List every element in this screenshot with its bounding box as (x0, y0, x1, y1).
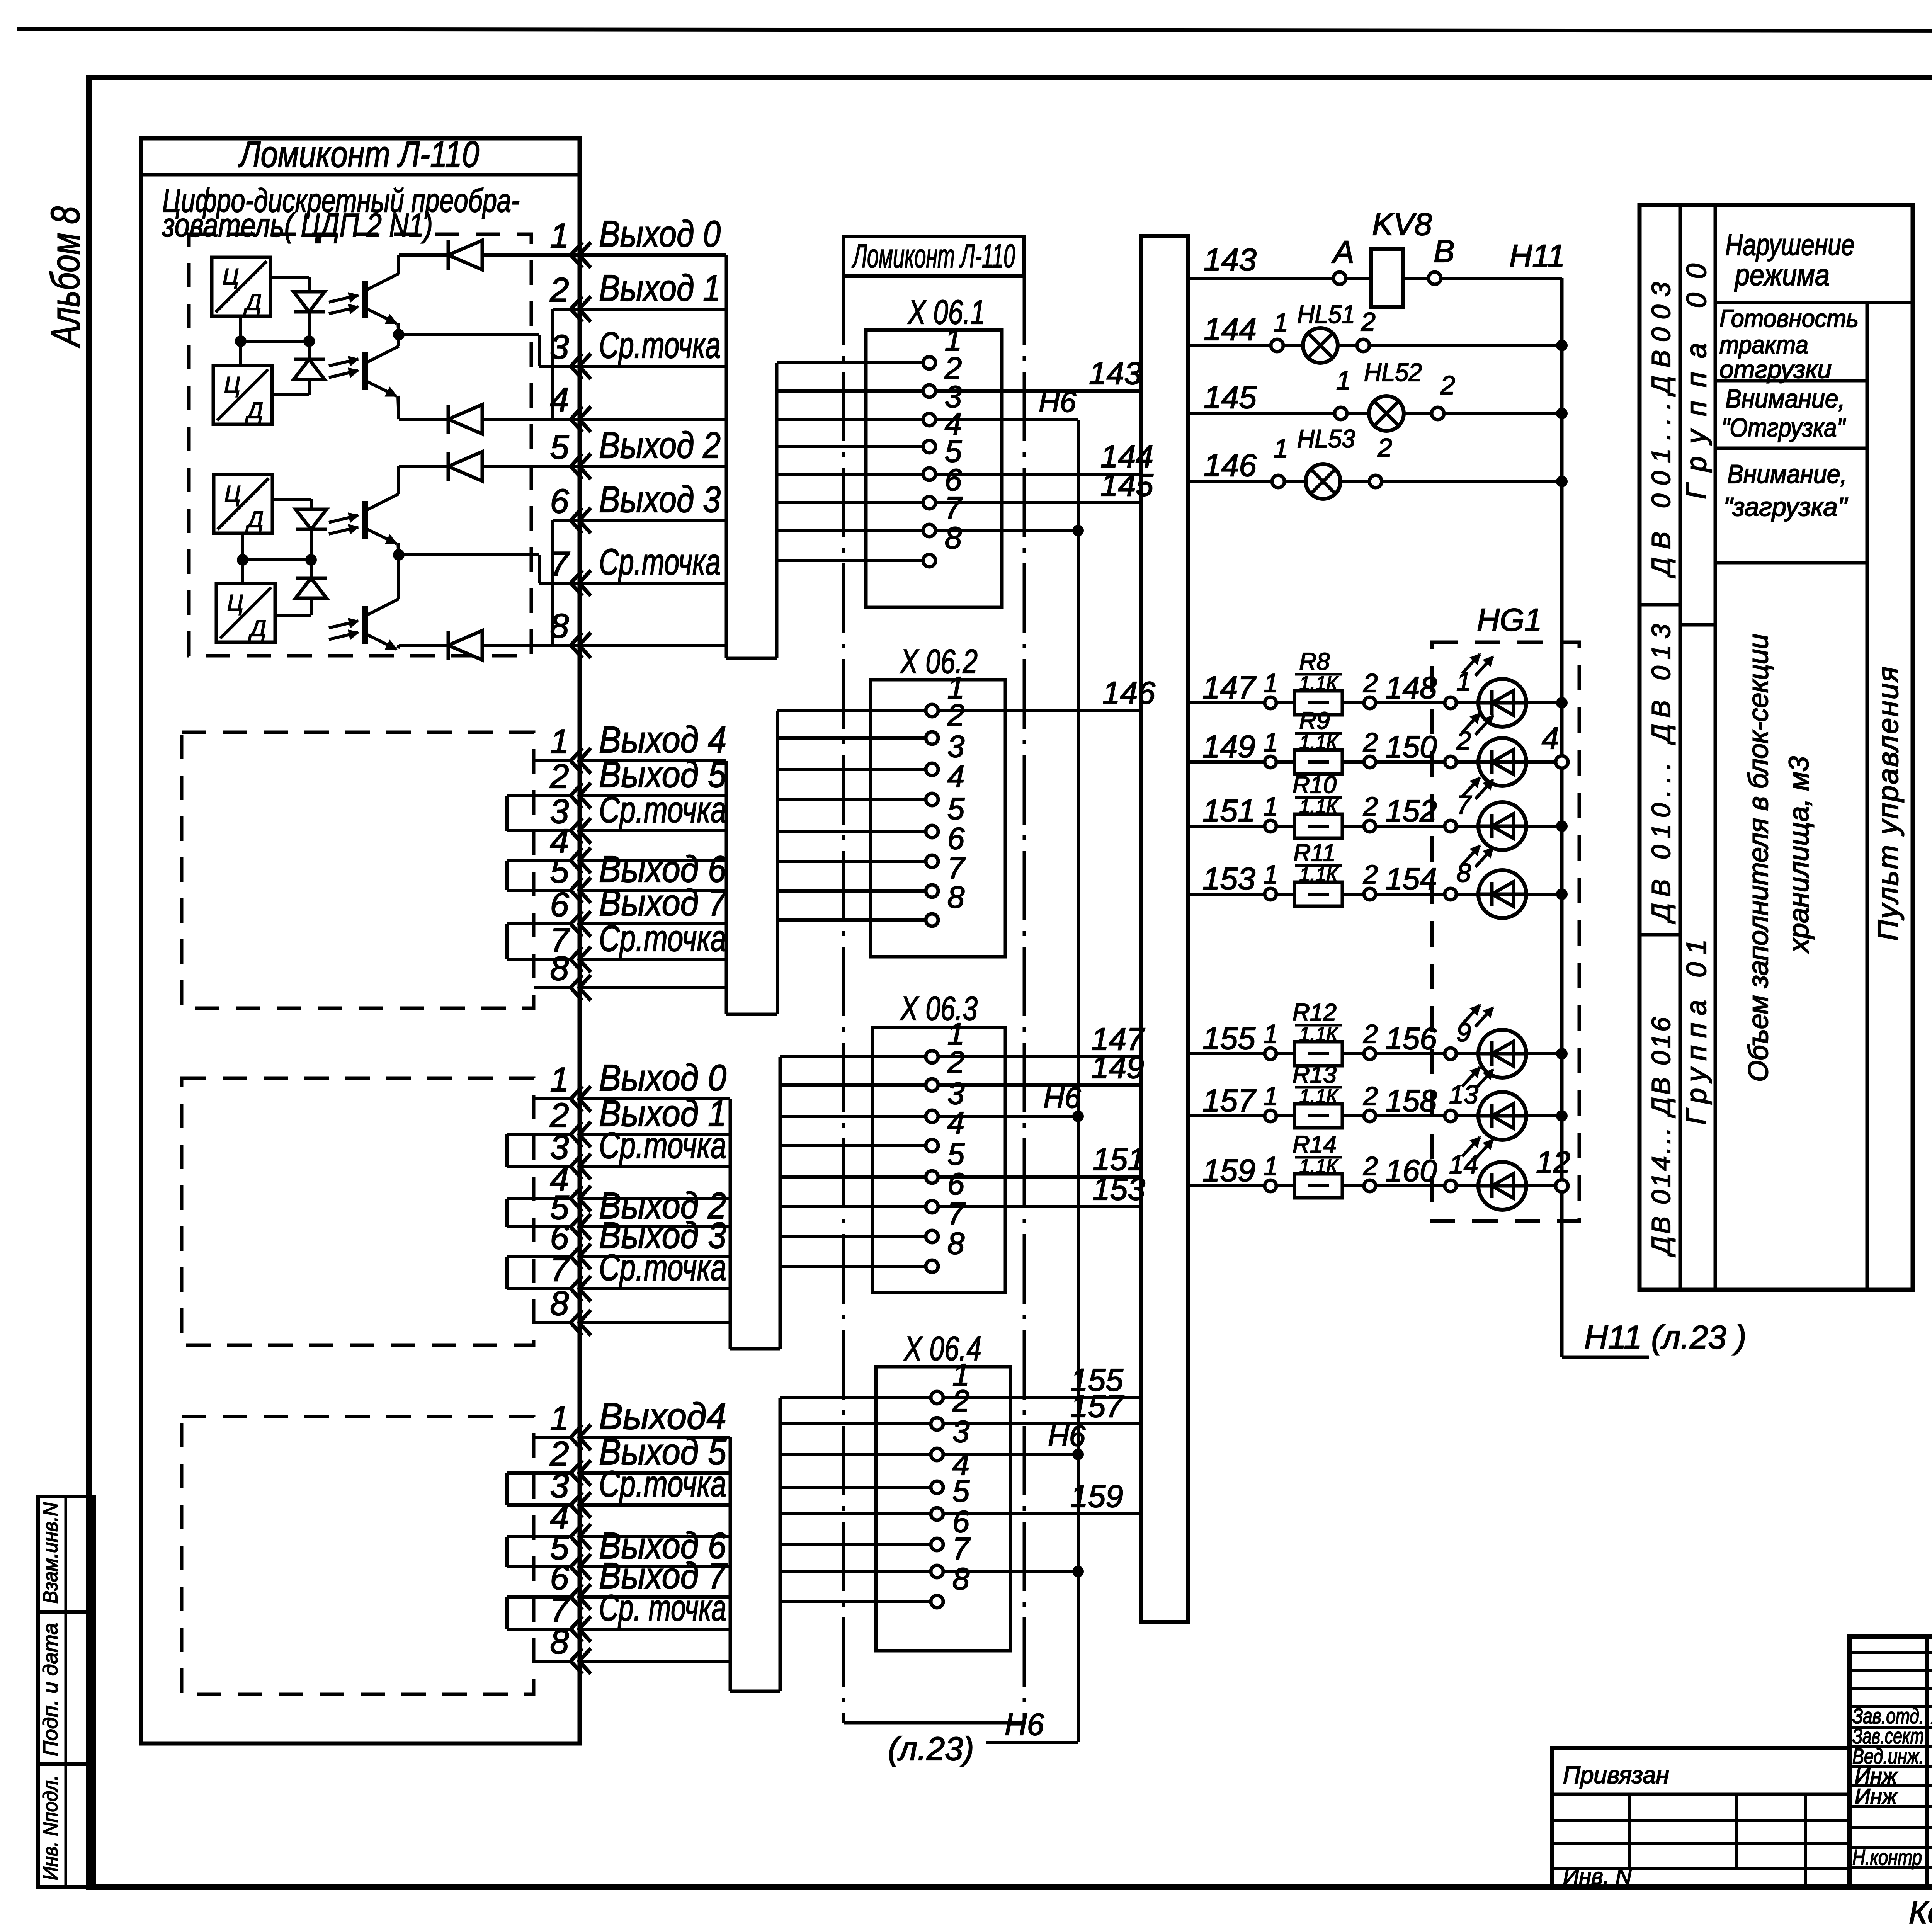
wire node N3 down to A4 (241, 560, 244, 583)
wire pin 3 group1 to cable (579, 365, 726, 368)
svg-text:150: 150 (1385, 730, 1437, 764)
svg-text:X 06.3: X 06.3 (900, 989, 978, 1027)
module pin 8 arrow group 4 (571, 1648, 582, 1674)
wire net 155 from X06.4 pin1 (943, 1396, 1141, 1399)
relay coil KV8 (1371, 249, 1403, 307)
svg-text:Инв. N: Инв. N (1563, 1864, 1632, 1889)
module U1 Lomikont L-110 outline (141, 138, 580, 1743)
svg-text:143: 143 (1089, 356, 1142, 391)
wire net 146 from X06.2 pin1 (938, 709, 1141, 712)
LED pin 9 terminal (1445, 1048, 1456, 1060)
net H11 vertical (1560, 278, 1564, 1357)
terminal 1 of R9 (1265, 756, 1276, 768)
wire node N1 down to A2 (239, 341, 242, 366)
svg-text:160: 160 (1385, 1153, 1437, 1188)
module pin 8 arrow group 2 (571, 975, 582, 1000)
wire A1 right to diode VD1 (270, 276, 309, 279)
resistor R14 (1276, 1184, 1294, 1187)
converter block A3 (C/D) (214, 474, 272, 533)
module U2 bottom boundary (844, 1721, 1024, 1725)
svg-text:1: 1 (1264, 728, 1278, 757)
svg-text:1.1К: 1.1К (1299, 731, 1339, 753)
connector X 06.2 pin 1 (777, 709, 926, 712)
connector X 06.2 pin 6 (777, 860, 926, 863)
svg-text:Н6: Н6 (1039, 386, 1077, 418)
svg-text:149: 149 (1202, 729, 1255, 764)
svg-text:Внимание,: Внимание, (1725, 384, 1845, 413)
svg-text:2: 2 (1363, 1082, 1378, 1111)
stub wire pin 5 group 2 (507, 889, 571, 892)
svg-text:ДВ 001...ДВ003: ДВ 001...ДВ003 (1646, 282, 1676, 578)
stub wire pin 5 group 4 (507, 1565, 571, 1568)
diode VD7 (448, 452, 482, 481)
svg-text:6: 6 (947, 821, 965, 855)
svg-text:"Отгрузка": "Отгрузка" (1721, 413, 1846, 442)
wire pin 2 group 4 to cable (579, 1471, 730, 1475)
connector X 06.3 pin 7 (780, 1235, 926, 1238)
terminal 1 of R13 (1265, 1110, 1276, 1122)
module pin 2 arrow group 3 (571, 1122, 582, 1147)
terminal 2 of R11 (1342, 893, 1364, 896)
svg-text:2: 2 (1361, 307, 1376, 337)
wire pin 6 group 3 to cable (579, 1255, 730, 1258)
stub wire pin 8 group 3 (534, 1321, 571, 1324)
wire net 153 from X06.3 pin6 (938, 1205, 1141, 1208)
module U2 Lomikont L-110 header (844, 236, 1024, 276)
sheet top edge line (17, 29, 1932, 32)
svg-text:"загрузка": "загрузка" (1723, 492, 1848, 522)
diode VD3 (296, 509, 327, 529)
svg-text:Альбом 8: Альбом 8 (43, 206, 88, 348)
connector X 06.4 pin 2 (780, 1422, 931, 1425)
wire net 144 from X06.1 pin5 (935, 473, 1141, 476)
svg-text:8: 8 (550, 1622, 569, 1661)
cable bundle group 4 bottom (730, 1690, 780, 1693)
title block row line y4833 (1849, 1866, 1932, 1869)
title block row line y4730 (1849, 1826, 1932, 1829)
connector X 06.2 box (871, 680, 1005, 957)
connector X 06.4 pin 7 (780, 1570, 931, 1573)
LED pin 14 terminal (1445, 1180, 1456, 1192)
attachment table outline (1552, 1748, 1849, 1887)
module pin 1 arrow group 3 (571, 1086, 582, 1112)
connector X 06.4 pin 6 (780, 1543, 931, 1546)
wire trunk to resistor R9 (1188, 760, 1265, 764)
optocoupler light arrows pair 1 (329, 295, 358, 302)
converter block A1 (C/D) (212, 257, 270, 316)
resistor R12 (1276, 1052, 1294, 1055)
wire pin 5 group 3 to cable (579, 1225, 730, 1228)
cable bundle group 2 bottom (726, 1013, 777, 1016)
wire HL51 to net H11 (1369, 344, 1562, 347)
connector X 06.2 pin 3 (777, 768, 926, 771)
lamp HL51 (1283, 344, 1303, 347)
dashed block group 4 (182, 1417, 534, 1694)
wire X06.1 pin7 to H6 (935, 529, 1078, 532)
stub wire pin 3 group 3 (507, 1165, 571, 1168)
node N1 junction dots and wire (241, 340, 309, 343)
node junction LED 8 on H11 bus (1556, 888, 1568, 900)
lamp HL53 (1284, 480, 1306, 483)
terminal 1 of R8 (1265, 697, 1276, 709)
svg-text:1: 1 (1264, 1151, 1278, 1181)
wire node 148 (1376, 701, 1445, 704)
stub wire pin 7 group 4 (507, 1628, 571, 1631)
connector X 06.4 pin 3 (780, 1453, 931, 1456)
title block vertical 1 (1925, 1637, 1929, 1887)
svg-text:2: 2 (1363, 668, 1378, 698)
stub wire pin 7 group 2 (507, 958, 571, 961)
wire pin 1 group 4 to cable (579, 1436, 730, 1439)
svg-text:1.1К: 1.1К (1299, 1155, 1339, 1177)
title block row line y4676 (1849, 1805, 1932, 1808)
terminal 1 of HL53 (1272, 475, 1284, 488)
LED pin 2 terminal (1445, 756, 1456, 768)
svg-text:3: 3 (550, 328, 569, 366)
wire node 160 (1376, 1184, 1445, 1187)
wire pin 8 group 3 to cable (579, 1321, 730, 1324)
svg-text:1: 1 (550, 722, 569, 760)
diode VD1 (294, 292, 325, 312)
wire trunk to resistor R13 (1188, 1114, 1265, 1117)
module pin 2 arrow group1 (571, 296, 582, 322)
module pin 7 arrow group1 (571, 570, 582, 596)
svg-text:1: 1 (1264, 860, 1278, 889)
terminal 2 of R8 (1342, 701, 1364, 704)
svg-text:5: 5 (947, 1137, 965, 1171)
pin pair bracket 4-5 group 4 (505, 1537, 509, 1567)
wire pin 7 group1 to cable (579, 582, 726, 585)
cable bundle group1 riser to X06.1 (775, 363, 779, 658)
stub wire pin 2 group 2 (507, 794, 571, 797)
node junction LED 13 on H11 bus (1556, 1110, 1568, 1122)
wire VD1 to node N1 (308, 312, 311, 341)
optocoupler light arrows pair 2 (329, 359, 358, 366)
svg-text:хранилища, м3: хранилища, м3 (1784, 756, 1815, 954)
dashed block CDP2 N1 (189, 234, 531, 656)
wire trunk to resistor R11 (1188, 893, 1265, 896)
svg-text:8: 8 (550, 949, 569, 987)
svg-text:1: 1 (1274, 434, 1288, 463)
cable bundle group 2 riser (776, 711, 779, 1014)
svg-text:Объем заполнителя в блок-секци: Объем заполнителя в блок-секции (1743, 634, 1774, 1082)
svg-text:1: 1 (1264, 668, 1278, 698)
svg-text:159: 159 (1202, 1153, 1255, 1188)
svg-text:2: 2 (1363, 860, 1378, 889)
LED HG1.8 (1456, 893, 1478, 896)
LED HG1.9 (1456, 1052, 1478, 1055)
svg-text:154: 154 (1385, 862, 1437, 896)
svg-text:Выход4: Выход4 (599, 1396, 726, 1437)
cable bundle group1 bottom (726, 657, 777, 660)
connector X 06.3 pin 5 (780, 1175, 926, 1179)
module pin 5 arrow group 3 (571, 1214, 582, 1240)
stub wire pin 2 group 3 (507, 1133, 571, 1136)
svg-text:Ц: Ц (224, 481, 241, 507)
svg-text:4: 4 (947, 759, 965, 794)
svg-text:R11: R11 (1293, 840, 1335, 866)
wire pin 7 group 2 to cable (579, 958, 726, 961)
svg-text:Ц: Ц (224, 372, 240, 398)
module pin 3 arrow group 3 (571, 1154, 582, 1179)
wire node to diode VD4 (310, 560, 313, 578)
svg-text:157: 157 (1202, 1083, 1257, 1118)
cable bundle group 2 vertical (725, 761, 728, 1014)
svg-text:Ср.точка: Ср.точка (599, 325, 721, 366)
svg-text:1: 1 (550, 1060, 569, 1099)
wire pin2 to pin4 tie (553, 308, 578, 311)
svg-text:146: 146 (1204, 448, 1257, 483)
svg-text:В: В (1434, 234, 1455, 269)
svg-text:8: 8 (945, 520, 962, 555)
terminal A (1333, 272, 1346, 284)
wire net 151 from X06.3 pin5 (938, 1175, 1141, 1179)
svg-text:Ср.точка: Ср.точка (599, 1247, 726, 1288)
wire VD3 to node N3 (310, 529, 313, 560)
svg-text:7: 7 (945, 490, 963, 525)
svg-text:6: 6 (550, 885, 569, 923)
wire pin1 output (399, 253, 448, 257)
svg-text:3: 3 (952, 1414, 970, 1449)
signal table column line 2 (1714, 205, 1717, 1290)
svg-text:1.1К: 1.1К (1299, 672, 1339, 694)
stub wire pin 4 group 2 (507, 859, 571, 862)
module pin 4 arrow group 2 (571, 848, 582, 873)
terminal 2 of R14 (1342, 1184, 1364, 1187)
phototransistor VT3 (362, 501, 368, 539)
resistor R8 (1276, 701, 1294, 704)
LED HG1.7 (1456, 825, 1478, 828)
wire pin 6 group 2 to cable (579, 922, 726, 925)
module U2 left boundary dash-dot (842, 276, 845, 1723)
stub wire pin 8 group 4 (534, 1660, 571, 1663)
table cell Gotovnost trakta otgruzki (1715, 379, 1867, 383)
connector X 06.4 pin 8 (780, 1600, 931, 1603)
connector X 06.2 pin 5 (777, 830, 926, 833)
wire pin 1 group1 to cable (579, 253, 726, 257)
optocoupler light arrows pair 3 (329, 515, 358, 522)
wire pin 8 group1 to cable (579, 644, 726, 647)
svg-text:Ср.точка: Ср.точка (599, 1125, 726, 1166)
wire HL53 to net H11 (1382, 480, 1562, 483)
wire net 149 from X06.3 pin2 (938, 1083, 1141, 1087)
wire pin 5 group 2 to cable (579, 889, 726, 892)
svg-text:8: 8 (550, 1284, 569, 1322)
module pin 6 arrow group1 (571, 508, 582, 533)
wire pin 6 group1 to cable (579, 519, 726, 522)
svg-text:4: 4 (550, 381, 569, 419)
svg-text:Н6: Н6 (1048, 1420, 1086, 1452)
table cell Vnimanie Otgruzka (1715, 447, 1867, 450)
stub wire pin 1 group 3 (534, 1097, 571, 1100)
svg-text:Н11: Н11 (1509, 238, 1565, 274)
svg-text:4: 4 (947, 1105, 965, 1140)
module pin 1 arrow group1 (571, 242, 582, 268)
cable bundle group 3 bottom (730, 1347, 780, 1351)
terminal 2 of R10 (1342, 825, 1364, 828)
svg-text:HL53: HL53 (1297, 424, 1355, 453)
wire net 159 from X06.4 pin5 (943, 1512, 1141, 1515)
title block row line y4324 (1849, 1669, 1932, 1672)
svg-text:тракта: тракта (1719, 331, 1808, 359)
connector X 06.1 pin 8 (777, 559, 923, 562)
title block row line y4571 (1849, 1765, 1932, 1768)
svg-text:Ср.точка: Ср.точка (599, 789, 726, 830)
wire pin 3 group 2 to cable (579, 829, 726, 832)
wire pin 4 group 4 to cable (579, 1535, 730, 1538)
wire pin 6 group 4 to cable (579, 1595, 730, 1599)
svg-text:1: 1 (1264, 1019, 1278, 1049)
svg-text:143: 143 (1204, 242, 1257, 277)
stub wire pin 1 group 2 (534, 759, 571, 762)
svg-text:R14: R14 (1293, 1131, 1337, 1158)
svg-text:156: 156 (1385, 1021, 1437, 1056)
svg-text:2: 2 (952, 1384, 970, 1418)
wire X06.4 pin7 to H6 (943, 1570, 1078, 1573)
svg-text:Выход 2: Выход 2 (599, 425, 721, 466)
svg-text:Н11 (л.23 ): Н11 (л.23 ) (1584, 1319, 1747, 1356)
svg-text:7: 7 (952, 1531, 971, 1566)
wire pin 4 group1 to cable (579, 418, 726, 421)
svg-text:Выход 3: Выход 3 (599, 479, 721, 520)
connector X 06.4 pin 1 (780, 1396, 931, 1399)
pin pair bracket 4-5 group 3 (505, 1199, 509, 1227)
wire node 156 (1376, 1052, 1445, 1055)
svg-text:Инж: Инж (1855, 1784, 1898, 1808)
signal table column line 1 (1679, 205, 1682, 1290)
svg-text:1: 1 (1264, 792, 1278, 821)
svg-text:Подп. и дата: Подп. и дата (39, 1623, 62, 1756)
svg-text:1: 1 (1264, 1082, 1278, 1111)
wire node N4 to step (399, 553, 539, 556)
wire trunk to lamp HL52 (1188, 412, 1335, 415)
wire VD7 to pin 5 (482, 465, 578, 468)
svg-text:152: 152 (1385, 794, 1437, 828)
wire pin6 to pin8 tie (553, 519, 578, 522)
title block row line y4470 (1849, 1726, 1932, 1729)
svg-text:149: 149 (1091, 1050, 1144, 1085)
module pin 5 arrow group 4 (571, 1554, 582, 1580)
terminal 12 on H11 bus (1556, 1180, 1568, 1192)
svg-text:3: 3 (947, 729, 965, 764)
connector X 06.4 pin 4 (780, 1486, 931, 1489)
connector X 06.2 pin 7 (777, 889, 926, 893)
module pin 2 arrow group 2 (571, 783, 582, 808)
terminal 2 of HL52 (1404, 412, 1432, 415)
connector X 06.1 pin 1 (777, 361, 923, 364)
svg-text:HG1: HG1 (1477, 602, 1542, 638)
svg-text:2: 2 (1363, 1151, 1378, 1181)
title block row line y4370 (1849, 1687, 1932, 1690)
module U2 right boundary dash-dot (1023, 276, 1026, 1723)
terminal B (1429, 272, 1441, 284)
module pin 5 arrow group 2 (571, 878, 582, 903)
svg-text:R13: R13 (1293, 1061, 1337, 1088)
svg-text:X 06.4: X 06.4 (903, 1329, 981, 1367)
svg-text:Инв. Nподл.: Инв. Nподл. (39, 1775, 62, 1880)
svg-text:4: 4 (1542, 721, 1559, 755)
svg-text:147: 147 (1202, 670, 1257, 705)
svg-text:R9: R9 (1299, 707, 1330, 734)
wire pin8 output (399, 644, 448, 647)
module pin 6 arrow group 2 (571, 911, 582, 937)
pin pair bracket 6-7 group 3 (505, 1257, 509, 1289)
svg-text:Д: Д (243, 290, 262, 315)
svg-text:1.1К: 1.1К (1299, 1023, 1339, 1045)
module pin 6 arrow group 3 (571, 1244, 582, 1269)
module pin 3 arrow group 4 (571, 1492, 582, 1518)
stub wire pin 7 group 3 (507, 1287, 571, 1290)
diode VD5 (448, 240, 482, 270)
title block row line y4622 (1849, 1784, 1932, 1787)
wire pin 2 group 3 to cable (579, 1133, 730, 1136)
module pin 4 arrow group 3 (571, 1186, 582, 1211)
converter block A4 (C/D) (216, 583, 275, 642)
lamp HL52 (1347, 412, 1369, 415)
connector X 06.1 pin 4 (777, 445, 923, 448)
table header cell Narushenie rezhima (1715, 301, 1913, 304)
connector X 06.1 pin 7 (777, 529, 923, 532)
pin pair bracket 6-7 group 4 (505, 1597, 509, 1629)
resistor R13 (1276, 1114, 1294, 1117)
terminal 1 of HL51 (1271, 339, 1283, 352)
module pin 3 arrow group 2 (571, 818, 582, 844)
svg-text:145: 145 (1100, 468, 1153, 503)
module pin 7 arrow group 2 (571, 947, 582, 972)
resistor R10 (1276, 825, 1294, 828)
optocoupler light arrows pair 4 (329, 621, 358, 628)
wire trunk to lamp HL51 (1188, 344, 1271, 347)
svg-text:148: 148 (1385, 670, 1437, 705)
wire net 157 from X06.4 pin2 (943, 1422, 1141, 1425)
svg-text:5: 5 (952, 1474, 970, 1508)
LED pin 1 terminal (1445, 697, 1456, 709)
diode VD6 (448, 405, 482, 434)
svg-text:R10: R10 (1293, 772, 1337, 798)
table cell Vnimanie Zagruzka (1715, 561, 1867, 565)
stub wire pin 4 group 4 (507, 1535, 571, 1538)
pin pair bracket 2-3 group 4 (505, 1473, 509, 1505)
svg-text:Нарушение: Нарушение (1725, 228, 1855, 262)
svg-text:2: 2 (550, 270, 569, 309)
phototransistor VT1 (362, 281, 368, 318)
LED HG1.7 emission arrows (1462, 777, 1480, 797)
connector X 06.1 pin 2 (777, 389, 923, 393)
LED HG1.2 (1456, 760, 1478, 764)
pin pair bracket 2-3 group 3 (505, 1134, 509, 1167)
svg-text:5: 5 (550, 428, 570, 466)
wire node 150 (1376, 760, 1445, 764)
wire LED HG1.9 to bus (1526, 1052, 1562, 1055)
svg-text:Готовность: Готовность (1719, 304, 1859, 332)
pin pair bracket 4-5 group 2 (505, 861, 509, 890)
svg-text:Привязан: Привязан (1563, 1762, 1669, 1789)
svg-text:А: А (1331, 235, 1354, 270)
svg-text:8: 8 (947, 880, 965, 914)
wire trunk to resistor R8 (1188, 701, 1265, 704)
connector X 06.1 box (866, 330, 1002, 607)
connector X 06.2 pin 8 (777, 918, 926, 922)
svg-text:R8: R8 (1299, 648, 1330, 675)
wire trunk to resistor R14 (1188, 1184, 1265, 1187)
LED HG1.8 emission arrows (1462, 845, 1480, 865)
connector X 06.2 pin 4 (777, 798, 926, 801)
pin pair bracket 6-7 group 2 (505, 924, 509, 959)
stub wire pin 3 group 4 (507, 1503, 571, 1507)
svg-text:ДВ 014... ДВ 016: ДВ 014... ДВ 016 (1646, 1017, 1676, 1257)
svg-text:зователь( ЦДП 2 N1): зователь( ЦДП 2 N1) (162, 207, 433, 244)
svg-text:Ср. точка: Ср. точка (599, 1587, 726, 1629)
